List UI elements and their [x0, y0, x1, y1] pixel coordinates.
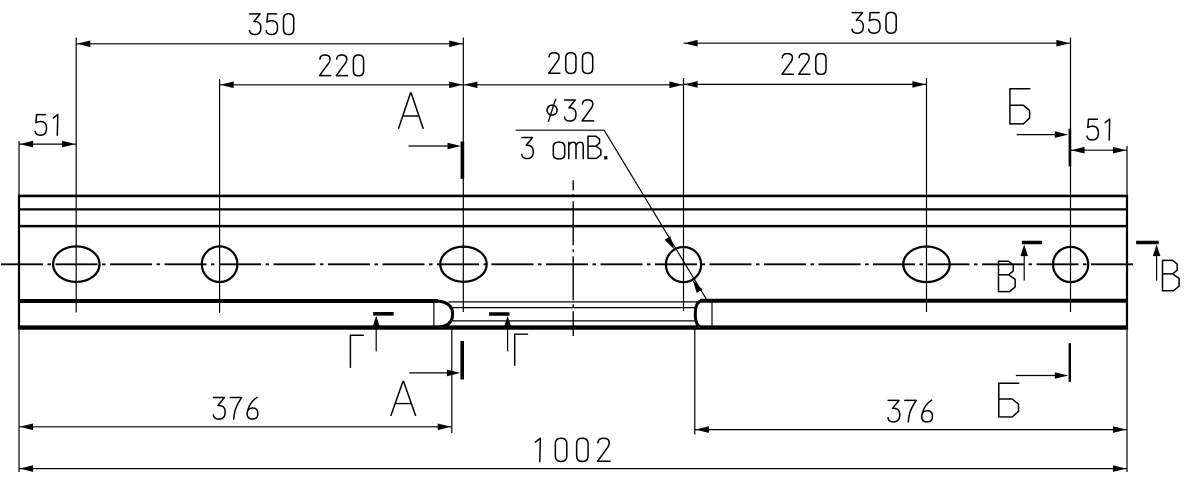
- text phi 32: [547, 99, 593, 122]
- hole callout arrow lower: [693, 280, 703, 293]
- dimension line 51 left: [19, 141, 76, 148]
- dimension line 376 right: [695, 426, 1127, 433]
- text 3 otv.: [522, 136, 608, 159]
- hole 2 centreline vertical: [219, 79, 221, 313]
- dimension line 350 right: [684, 40, 1071, 47]
- dimension line 220 right: [684, 81, 927, 88]
- dimension text 51 right: [1087, 119, 1110, 140]
- hole 4 circle: [666, 247, 701, 282]
- view mark G(cyr) left: [372, 314, 393, 352]
- part right edge: [1126, 195, 1128, 330]
- dimension text 200: [549, 53, 593, 74]
- section mark B(cyr) top: [1017, 129, 1070, 167]
- dimension text 220 right: [782, 54, 826, 75]
- hole 5 ellipse: [903, 246, 949, 282]
- dimension line 350 left: [76, 41, 463, 48]
- hole 1 centreline vertical: [75, 38, 77, 313]
- rail top edge: [19, 195, 1127, 198]
- dimension text 376 right: [888, 400, 933, 422]
- hole 3 centreline vertical: [462, 38, 464, 313]
- dimension 376 left extension at slot end: [451, 327, 453, 433]
- dimension text 350 right: [852, 12, 896, 33]
- section mark A bottom: [409, 341, 462, 380]
- hole 4 centreline vertical: [683, 78, 685, 311]
- left plate cap tangent line: [433, 302, 435, 327]
- right edge extension line: [1126, 146, 1128, 472]
- dimension 376 right extension at slot end: [694, 327, 696, 435]
- label A bottom: [391, 381, 416, 415]
- rail web line: [19, 225, 1127, 228]
- label B(cyr) bottom: [999, 383, 1019, 417]
- label V(cyr) right: [1163, 260, 1180, 290]
- left plate top edge thick: [19, 299, 438, 303]
- right plate top edge thick: [700, 299, 1127, 303]
- dimension text 350 left: [250, 14, 294, 35]
- dimension text 376 left: [213, 397, 258, 419]
- right plate rounded end cap: [695, 301, 701, 327]
- left plate rounded end cap: [437, 301, 453, 327]
- gap rail line 1: [449, 301, 699, 303]
- hole 6 centreline vertical: [1070, 38, 1072, 313]
- view mark G(cyr) right: [489, 314, 511, 351]
- dimension line 51 right: [1071, 147, 1128, 154]
- vertical symmetry centreline: [572, 180, 574, 336]
- label G(cyr) right: [515, 334, 528, 365]
- hole 1 ellipse: [53, 246, 99, 282]
- hole 5 centreline vertical: [926, 78, 928, 312]
- section mark A top: [409, 142, 463, 179]
- hole callout leader line: [604, 130, 708, 301]
- label A top: [399, 93, 424, 128]
- dimension line 376 left: [19, 424, 452, 431]
- dimension line 1002: [19, 465, 1127, 472]
- hole 2 circle: [202, 246, 238, 282]
- part left edge: [18, 195, 20, 330]
- dimension text 220 left: [320, 55, 364, 76]
- hole callout arrow upper: [665, 236, 675, 249]
- hole 3 ellipse: [440, 247, 486, 282]
- left edge extension line: [18, 141, 20, 472]
- hole 6 circle: [1053, 247, 1088, 282]
- view mark V(cyr) right: [1136, 243, 1160, 281]
- view mark V(cyr) left: [1020, 243, 1042, 281]
- rail head lower line: [19, 208, 1127, 210]
- section mark B(cyr) bottom: [1016, 343, 1070, 382]
- gap rail line 3: [453, 320, 696, 322]
- dimension line 200 centre: [463, 82, 683, 89]
- plate bottom edge thick: [19, 325, 1127, 329]
- label B(cyr) top: [1010, 89, 1030, 124]
- hole callout fraction bar: [516, 129, 605, 131]
- dimension text 51 left: [35, 114, 58, 135]
- label G(cyr) left: [350, 335, 363, 367]
- horizontal axis centreline: [1, 263, 1133, 265]
- dimension line 220 left: [220, 82, 464, 89]
- dimension text 1002: [535, 438, 610, 461]
- label V(cyr) left: [999, 261, 1016, 291]
- right plate cap tangent line: [711, 301, 713, 326]
- gap rail line 2: [453, 307, 696, 309]
